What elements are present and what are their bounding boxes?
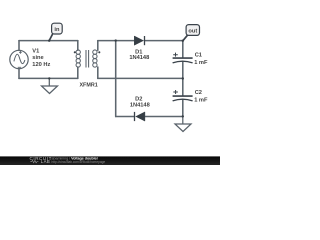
label C2 value [194, 90, 208, 104]
voltage source V1 [10, 50, 28, 68]
label V1 value [32, 49, 50, 68]
wire C2 bottom to D2 row [182, 100, 184, 117]
svg-text:LAB: LAB [41, 159, 50, 164]
wire C1 bottom to mid node [182, 62, 184, 95]
capacitor C1 [173, 53, 193, 63]
junction dot bottom node [182, 115, 184, 117]
svg-text:out: out [188, 29, 197, 35]
wire secondary bottom rail [98, 77, 183, 79]
junction dot out node [182, 40, 184, 42]
watermark logo CIRCUIT LAB [30, 156, 52, 164]
wire D1 cathode to out node [145, 40, 183, 42]
phase dot primary [74, 51, 76, 53]
diode D2 [135, 112, 145, 121]
phase dot secondary [98, 51, 100, 53]
node in flag [49, 23, 62, 40]
ground left [42, 78, 58, 93]
diode D1 [134, 36, 144, 45]
wire V1 bottom lead [18, 69, 20, 79]
svg-text:C1: C1 [195, 52, 202, 58]
junction dot D2 branch [115, 39, 117, 41]
svg-text:C2: C2 [195, 90, 202, 96]
wire secondary top lead [97, 41, 99, 51]
label D1 value [129, 50, 149, 62]
wire secondary bottom lead [97, 67, 99, 78]
wire D2 branch vertical [115, 41, 117, 117]
svg-text:sine: sine [32, 55, 43, 61]
junction dot ground left [48, 77, 50, 79]
core [86, 50, 89, 68]
svg-text:1N4148: 1N4148 [130, 103, 150, 109]
wire top rail secondary to D1 [98, 40, 135, 42]
label D2 value [130, 96, 150, 108]
junction dot mid node [182, 77, 184, 79]
wire V1 top lead [18, 41, 20, 51]
svg-text:in: in [54, 27, 60, 33]
svg-text:http://circuitlab.com/c/9kd4/h: http://circuitlab.com/c/9kd4/homepage [52, 160, 106, 164]
wire primary top lead [77, 41, 79, 51]
wire out node to C1 [182, 41, 184, 58]
wire D2 row left [116, 116, 135, 118]
svg-text:D2: D2 [135, 96, 142, 102]
wire bottom rail primary [19, 77, 78, 79]
svg-text:1N4148: 1N4148 [129, 55, 149, 61]
primary winding [76, 50, 80, 54]
wire top rail primary [19, 40, 78, 42]
secondary winding [93, 50, 97, 54]
label C1 value [194, 52, 208, 66]
wire D2 row right [145, 116, 183, 118]
junction dot in node [48, 40, 50, 42]
ground right [175, 117, 191, 132]
wire primary bottom lead [77, 67, 79, 78]
node out flag [183, 25, 200, 41]
svg-text:1 mF: 1 mF [194, 98, 208, 104]
svg-text:XFMR1: XFMR1 [79, 82, 97, 88]
svg-text:V1: V1 [32, 49, 39, 55]
svg-text:120 Hz: 120 Hz [32, 62, 50, 68]
svg-text:1 mF: 1 mF [194, 60, 208, 66]
transformer XFMR1 [76, 50, 97, 68]
capacitor C2 [173, 90, 193, 101]
